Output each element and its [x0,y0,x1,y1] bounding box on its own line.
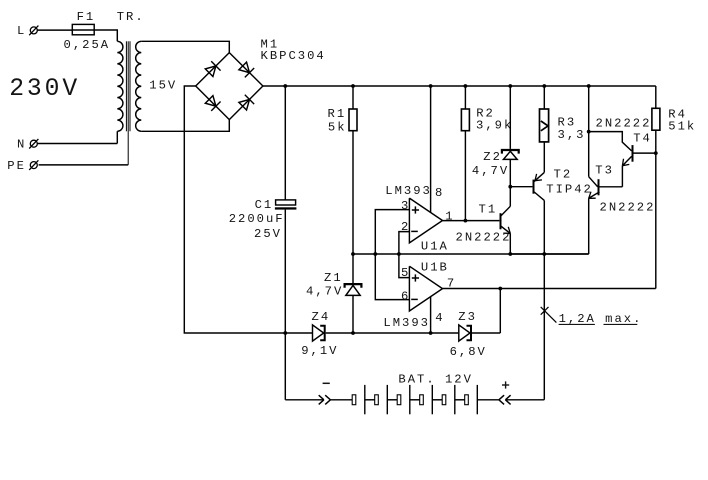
resistor R3 with > mark [540,109,549,142]
op-amp U1B [409,266,442,311]
resistor R1 [349,109,357,131]
wire R2 to T1 base node [464,131,466,221]
wire battery to chevron [477,399,499,401]
node rail/Z2 [508,84,512,88]
wire rail down T3 base column [588,86,590,177]
node T1 emitter/mid line [508,252,512,256]
wire Z1 to bottom line [352,295,354,333]
zener Z4 [313,325,324,341]
node pin7 branch [498,287,502,291]
wire U1B output pin7 [443,288,656,290]
battery BAT. 12V cells [352,395,356,405]
svg-text:4: 4 [435,311,444,325]
wire U1B pin4 to bottom line [430,297,432,333]
node rail/R1 [351,84,355,88]
transistor T2 (TIP42 PNP) [533,180,535,194]
svg-text:R1: R1 [328,107,347,121]
bridge diode (left-bottom, points to AC bottom) [204,95,220,111]
wire rail to R1 [352,86,354,109]
svg-text:51k: 51k [668,119,696,133]
node Z1/bottom line [351,331,355,335]
wire U1A pin8 to rail [430,86,432,212]
node battery riser/mid line [542,252,546,256]
zener Z3 [459,325,470,341]
svg-text:T2: T2 [554,168,573,182]
svg-text:Z1: Z1 [324,271,343,285]
svg-text:U1A: U1A [421,239,449,253]
svg-text:BAT. 12V: BAT. 12V [398,373,473,387]
svg-text:KBPC304: KBPC304 [261,49,326,63]
fuse F1 [72,24,94,34]
wire pin7 branch down to Z3 line [499,289,501,334]
node R1/mid line [351,252,355,256]
wire positive rail corner down to R4 [655,86,657,108]
svg-text:2200uF: 2200uF [229,212,285,226]
zener Z1 [345,284,362,288]
capacitor C1 [276,200,296,205]
wire battery plus to riser [505,399,544,401]
svg-text:L: L [17,24,26,38]
svg-text:TR.: TR. [117,10,145,24]
wire T4 base [589,132,632,151]
wire bridge plus to positive rail [263,85,656,87]
wire mid reference node line [353,253,589,255]
wire rail to R3 [543,86,545,109]
svg-text:LM393: LM393 [383,316,430,330]
svg-text:1: 1 [445,210,454,224]
wire output column up to T4 collector [655,153,657,288]
transistor T3 (2N2222 NPN) [589,177,598,187]
wire Z3 to pin7 branch [472,332,500,334]
svg-text:2: 2 [401,220,410,234]
wire primary bottom lead [116,131,118,143]
svg-text:T1: T1 [479,202,498,216]
node mid/pin3 column [373,252,377,256]
node rail/T3 base column [587,84,591,88]
svg-text:9,1V: 9,1V [301,344,338,358]
wire U1A pin2 input [399,232,410,278]
wire fuse to transformer primary [94,30,117,41]
zener Z2 [502,150,519,154]
node T4 base tap [587,130,591,134]
wire R4 to T4 collector node [655,130,657,153]
svg-text:2N2222: 2N2222 [596,117,652,131]
node rail/R2 [464,84,468,88]
bridge diode (bottom-right, points to + out) [238,95,254,111]
node C1/bottom line [283,331,287,335]
wire C1 node down to battery minus [284,333,286,400]
node output/R2 [464,219,468,223]
op-amp U1A [409,198,442,243]
svg-text:8: 8 [435,186,444,200]
transformer primary winding [117,41,123,131]
svg-text:15V: 15V [149,79,177,93]
label battery plus [502,384,509,386]
wire R3 to T2 emitter [543,142,545,173]
svg-text:25V: 25V [254,227,282,241]
svg-text:T3: T3 [595,164,614,178]
node rail/C1 [283,84,287,88]
node T4 collector/R4 [654,151,658,155]
bridge diode (top-right, points to + out) [238,61,254,77]
wire L to fuse F1 [37,29,72,31]
svg-text:2N2222: 2N2222 [456,231,512,245]
transformer secondary winding [136,41,142,131]
wire Z4 to Z3 [326,332,459,334]
node Z2/T2 base/T1 collector [508,185,512,189]
svg-text:TIP42: TIP42 [546,183,593,197]
wire N to transformer primary [37,143,117,145]
wire secondary top to bridge [141,41,229,52]
svg-text:2N2222: 2N2222 [600,200,656,214]
resistor R2 [461,109,469,131]
svg-text:5k: 5k [328,121,347,135]
node pin4/bottom line [429,331,433,335]
connector chevrons >> [319,395,324,400]
svg-text:230V: 230V [9,75,80,103]
wire C1 to bottom line [284,210,286,333]
wire battery plus riser [543,254,545,400]
wire mid node to Z1 [352,254,354,283]
svg-text:Z2: Z2 [483,150,502,164]
wire chevron to battery [330,399,352,401]
svg-text:3: 3 [401,199,410,213]
svg-text:6: 6 [401,289,410,303]
node rail/R3 [542,84,546,88]
wire secondary bottom to bridge [141,120,229,132]
svg-text:PE: PE [7,159,26,173]
svg-text:4,7V: 4,7V [306,284,343,298]
svg-text:F1: F1 [77,10,96,24]
svg-text:Z4: Z4 [312,310,331,324]
wire rail to Z2 [509,86,511,149]
svg-text:U1B: U1B [421,261,449,275]
svg-text:LM393: LM393 [385,184,432,198]
svg-text:Z3: Z3 [458,310,477,324]
wire R1 to mid node [352,131,354,254]
node mid/pin2 column [397,252,401,256]
X marker 1,2A max [541,307,557,323]
svg-text:T4: T4 [633,132,652,146]
wire PE to transformer core [39,164,129,166]
wire U1A output pin1 to T1 base [443,220,500,222]
wire bridge minus to negative rail [184,86,312,333]
svg-text:N: N [17,138,26,152]
svg-text:3,3: 3,3 [558,128,586,142]
svg-text:5: 5 [401,266,410,280]
svg-text:3,9k: 3,9k [476,118,513,132]
bridge diode (left-top, points to AC top) [204,61,220,77]
wire rail to R2 [464,86,466,109]
wire U1A pin3 input [375,210,409,300]
connector chevrons << [499,395,504,400]
bridge M1 diamond [196,53,263,120]
svg-text:6,8V: 6,8V [450,345,487,359]
svg-text:0,25A: 0,25A [64,38,111,52]
resistor R4 [652,108,660,130]
wire Z2 to T2 base node [509,159,511,186]
node rail/pin8 [429,84,433,88]
transformer core [125,41,127,131]
wire T2 base [510,186,532,188]
wire T1 emitter node to T3 emitter [510,253,588,255]
wire rail to C1 [284,86,286,200]
svg-text:4,7V: 4,7V [472,164,509,178]
svg-text:C1: C1 [255,198,274,212]
label battery minus [323,382,330,384]
transistor T1 (2N2222 NPN) [500,213,502,229]
transistor T4 (2N2222 NPN) [632,145,634,162]
